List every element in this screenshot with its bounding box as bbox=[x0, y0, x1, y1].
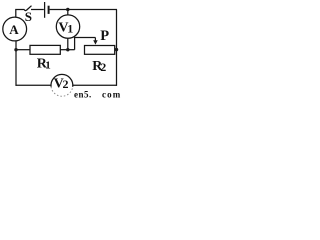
svg-text:A: A bbox=[9, 22, 19, 37]
wire: top rail switch to battery bbox=[31, 9, 44, 11]
wire: elbow up from junction to slider wire bbox=[75, 38, 96, 50]
junction node on right rail at R2 stub bbox=[115, 48, 118, 51]
wire: left rail to R1 left bbox=[16, 49, 30, 51]
voltmeter V2 circle (upper arc) bbox=[51, 74, 73, 86]
wire: bottom rail left segment (corner to V2) bbox=[16, 84, 52, 86]
battery long plate bbox=[44, 2, 46, 18]
wire: top rail left segment (A top to switch) bbox=[16, 10, 25, 18]
svg-text:en5.: en5. bbox=[74, 90, 92, 99]
wire: top rail battery to top-right corner bbox=[50, 9, 117, 11]
svg-text:2: 2 bbox=[100, 60, 106, 74]
voltmeter V1 circle bbox=[56, 15, 79, 38]
slider P arrow shaft bbox=[94, 38, 96, 42]
svg-text:1: 1 bbox=[67, 22, 73, 36]
switch S lever bbox=[24, 6, 31, 11]
resistor R1 box bbox=[30, 45, 60, 54]
slider P arrowhead bbox=[93, 40, 98, 44]
junction node under V1 on R1-R2 wire bbox=[66, 48, 69, 51]
wire: V1 top lead bbox=[67, 10, 69, 16]
battery short plate bbox=[48, 6, 50, 14]
junction node on top rail above V1 bbox=[66, 8, 69, 11]
junction node on left rail at R1 wire bbox=[14, 48, 17, 51]
wire: left rail (A bottom to bottom-left corner) bbox=[15, 41, 17, 86]
wire: bottom rail right segment (V2 to right corner) bbox=[73, 84, 117, 86]
wire: R1 right to junction under V1 bbox=[60, 49, 74, 51]
svg-text:S: S bbox=[25, 9, 32, 24]
voltmeter V2 bottom arc (faded dashed) bbox=[51, 87, 73, 96]
resistor R2 box (rheostat) bbox=[85, 46, 115, 55]
wire: R2 right stub to right rail bbox=[115, 49, 117, 51]
svg-text:P: P bbox=[100, 28, 109, 44]
svg-text:2: 2 bbox=[63, 77, 69, 91]
svg-text:1: 1 bbox=[45, 59, 51, 71]
svg-text:com: com bbox=[102, 90, 121, 99]
ammeter A circle bbox=[3, 17, 27, 41]
wire: V1 bottom lead bbox=[67, 38, 69, 50]
wire: right rail bbox=[116, 10, 118, 86]
